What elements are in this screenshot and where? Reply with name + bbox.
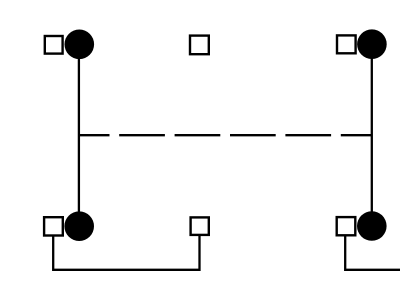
square node bottom-middle (open)	[191, 217, 209, 235]
filled circle node top-right	[357, 29, 387, 59]
wire: bottom-right link from bottom-right square down and off right edge	[345, 236, 400, 270]
square node bottom-right (open)	[337, 217, 356, 235]
square node top-left (open)	[45, 36, 63, 54]
wire: left vertical from top-left circle to bottom-left circle	[78, 44, 80, 226]
filled circle node bottom-right	[357, 211, 387, 241]
filled circle node top-left	[65, 30, 95, 60]
wire: bottom-left U link from bottom-left square down and across to bottom-middle square	[53, 236, 199, 270]
square node top-middle (open)	[190, 36, 209, 55]
wire: right vertical from top-right circle to bottom-right circle	[371, 44, 373, 226]
wire: horizontal dashed connector between left and right verticals	[78, 134, 372, 136]
filled circle node bottom-left	[64, 211, 94, 241]
square node top-right (open)	[337, 35, 356, 53]
square node bottom-left (open)	[44, 217, 63, 235]
